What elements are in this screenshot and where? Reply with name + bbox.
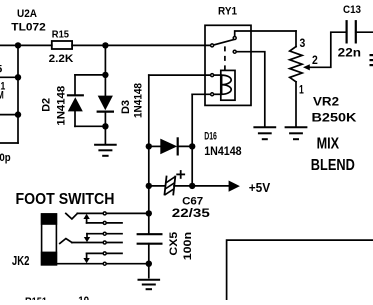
node: D16 cathode junction: [189, 143, 195, 149]
potentiometer VR2: [290, 31, 302, 127]
svg-text:C13: C13: [343, 4, 361, 16]
svg-text:22/35: 22/35: [172, 208, 211, 220]
capacitor CX5: [138, 234, 162, 244]
ground (relay contact): [254, 127, 275, 139]
svg-text:10: 10: [78, 295, 89, 300]
wire: row1 to contact: [77, 212, 102, 214]
node: junction main wire / diode drop: [102, 42, 108, 48]
wire: row2 stub right: [107, 222, 122, 224]
svg-text:100p: 100p: [0, 152, 11, 164]
svg-text:D3: D3: [120, 100, 132, 114]
wire: row5: [87, 252, 103, 254]
relay actuator dashed link: [224, 46, 226, 70]
wire: x=148.8 bus upper segment: [148, 75, 150, 234]
svg-text:TL072: TL072: [11, 21, 46, 33]
svg-text:1N4148: 1N4148: [56, 86, 68, 126]
relay pin (right lower): [233, 50, 236, 53]
wire: row6 contact to bus: [107, 263, 149, 265]
svg-text:1N4148: 1N4148: [133, 83, 145, 118]
svg-text:+5V: +5V: [249, 181, 271, 195]
resistor R15: [52, 41, 72, 49]
foot switch linkage arrow down (pole3): [86, 253, 88, 258]
diode D2 (cathode up): [68, 75, 83, 126]
node: junction at (18,114.6): [15, 111, 21, 117]
ground (below D2/D3): [95, 126, 116, 156]
wire: row5 stub right: [107, 252, 122, 254]
wire: +5V feed: [192, 185, 229, 187]
wire: R15 to relay common contact: [72, 44, 210, 46]
svg-text:R151: R151: [25, 296, 47, 300]
wire: main signal net, left segment to R15: [0, 44, 52, 46]
relay pin (NO top right): [233, 37, 236, 40]
wire: stub to left edge y=114.6: [0, 114, 18, 116]
value 1N4148 (D2): [56, 86, 68, 126]
wire: x=148.8 bus lower segment: [148, 244, 150, 278]
wire: drop from main wire to diode pair: [104, 45, 106, 75]
capacitor C13: [347, 21, 373, 42]
svg-text:MIX: MIX: [317, 135, 340, 152]
sub-circuit box (bottom right): [227, 240, 373, 300]
wire: wiper to C13: [309, 32, 346, 67]
value 1N4148 (D3): [133, 83, 145, 118]
ground (pot): [286, 127, 307, 139]
svg-text:2: 2: [312, 53, 318, 67]
svg-text:2.2K: 2.2K: [49, 53, 74, 65]
svg-text:C67: C67: [182, 195, 203, 207]
wire: x=192.2 vertical: [191, 94, 193, 186]
svg-text:RY1: RY1: [218, 6, 237, 18]
value 100n: [182, 232, 194, 261]
node: D16 anode junction: [146, 143, 152, 149]
relay RY1 box: [205, 25, 251, 105]
relay pin (coil -): [211, 93, 214, 96]
foot switch pole 1 lever: [66, 213, 78, 219]
wire: bottom rail of D2/D3: [75, 125, 105, 127]
foot switch linkage arrow up (pole1): [86, 218, 88, 223]
foot switch contact pins: [103, 212, 106, 215]
label fragment (cut) right edge ticks: [370, 54, 373, 66]
foot switch linkage arrow down (pole2): [86, 234, 88, 239]
jack JK2: [41, 213, 57, 265]
svg-text:VR2: VR2: [313, 97, 339, 109]
svg-text:100n: 100n: [182, 232, 194, 261]
label D2: [40, 98, 52, 112]
wire: lower right contact to ground: [237, 52, 265, 127]
relay coil: [221, 70, 235, 100]
node: junction C67 left: [146, 183, 152, 189]
wire: stub to left edge y=77.3: [0, 76, 18, 78]
C67 plus sign: [177, 171, 184, 178]
relay pin (common): [211, 44, 214, 47]
node: junction at (18,77.3): [15, 74, 21, 80]
ground (CX5): [139, 280, 160, 289]
relay switch blade: [214, 40, 233, 45]
label CX5: [168, 232, 180, 256]
wire: row4 stub right: [107, 242, 122, 244]
svg-text:CX5: CX5: [168, 232, 180, 256]
relay pin (coil +): [211, 74, 214, 77]
diode D16: [149, 138, 192, 154]
node: junction C67 right: [189, 183, 195, 189]
svg-text:3: 3: [300, 36, 306, 50]
VR2 wiper arrow: [303, 64, 310, 70]
svg-text:1: 1: [299, 83, 304, 97]
wire: left bus vertical x=18: [17, 45, 19, 143]
node: junction row6/bus: [146, 261, 152, 267]
svg-text:JK2: JK2: [12, 254, 30, 268]
wire: row1 contact to bus: [107, 212, 149, 214]
wire: row4: [72, 242, 103, 244]
svg-text:5: 5: [0, 64, 2, 76]
wire: corner exit to left edge y=143: [0, 142, 18, 144]
svg-text:D2: D2: [40, 98, 52, 112]
svg-text:B250K: B250K: [312, 113, 358, 125]
wire: row3: [87, 233, 103, 235]
svg-text:22n: 22n: [338, 48, 361, 60]
wire: row6 from jack sleeve: [57, 263, 102, 265]
wire: coil+ feed from x=148.8 bus: [149, 74, 210, 76]
node: junction at (105.4,74.9): [102, 72, 108, 78]
node: junction at (105.4,126.3): [102, 123, 108, 129]
svg-text:D16: D16: [204, 131, 217, 143]
svg-text:R15: R15: [52, 28, 69, 40]
wire: NO contact up and right to pot: [235, 31, 296, 36]
capacitor C67 (polarized): [149, 176, 192, 196]
foot switch pole 2 lever: [60, 239, 72, 244]
svg-text:1N4148: 1N4148: [204, 146, 242, 158]
diode D3 (cathode down): [98, 75, 113, 126]
wire: coil pin stubs: [214, 74, 220, 76]
svg-text:M: M: [0, 89, 4, 101]
wire: top rail of D2/D3: [75, 74, 105, 76]
wire: coil- to c3 contact: [192, 93, 210, 95]
label D3: [120, 100, 132, 114]
svg-text:BLEND: BLEND: [311, 157, 355, 174]
node: junction row1/bus: [146, 210, 152, 216]
+5V arrow: [229, 181, 240, 192]
svg-text:U2A: U2A: [17, 8, 37, 20]
wire: row3 stub right: [107, 233, 122, 235]
wire: row2: [87, 222, 103, 224]
node: junction main wire / left bus: [15, 42, 21, 48]
svg-text:FOOT SWITCH: FOOT SWITCH: [16, 191, 115, 208]
